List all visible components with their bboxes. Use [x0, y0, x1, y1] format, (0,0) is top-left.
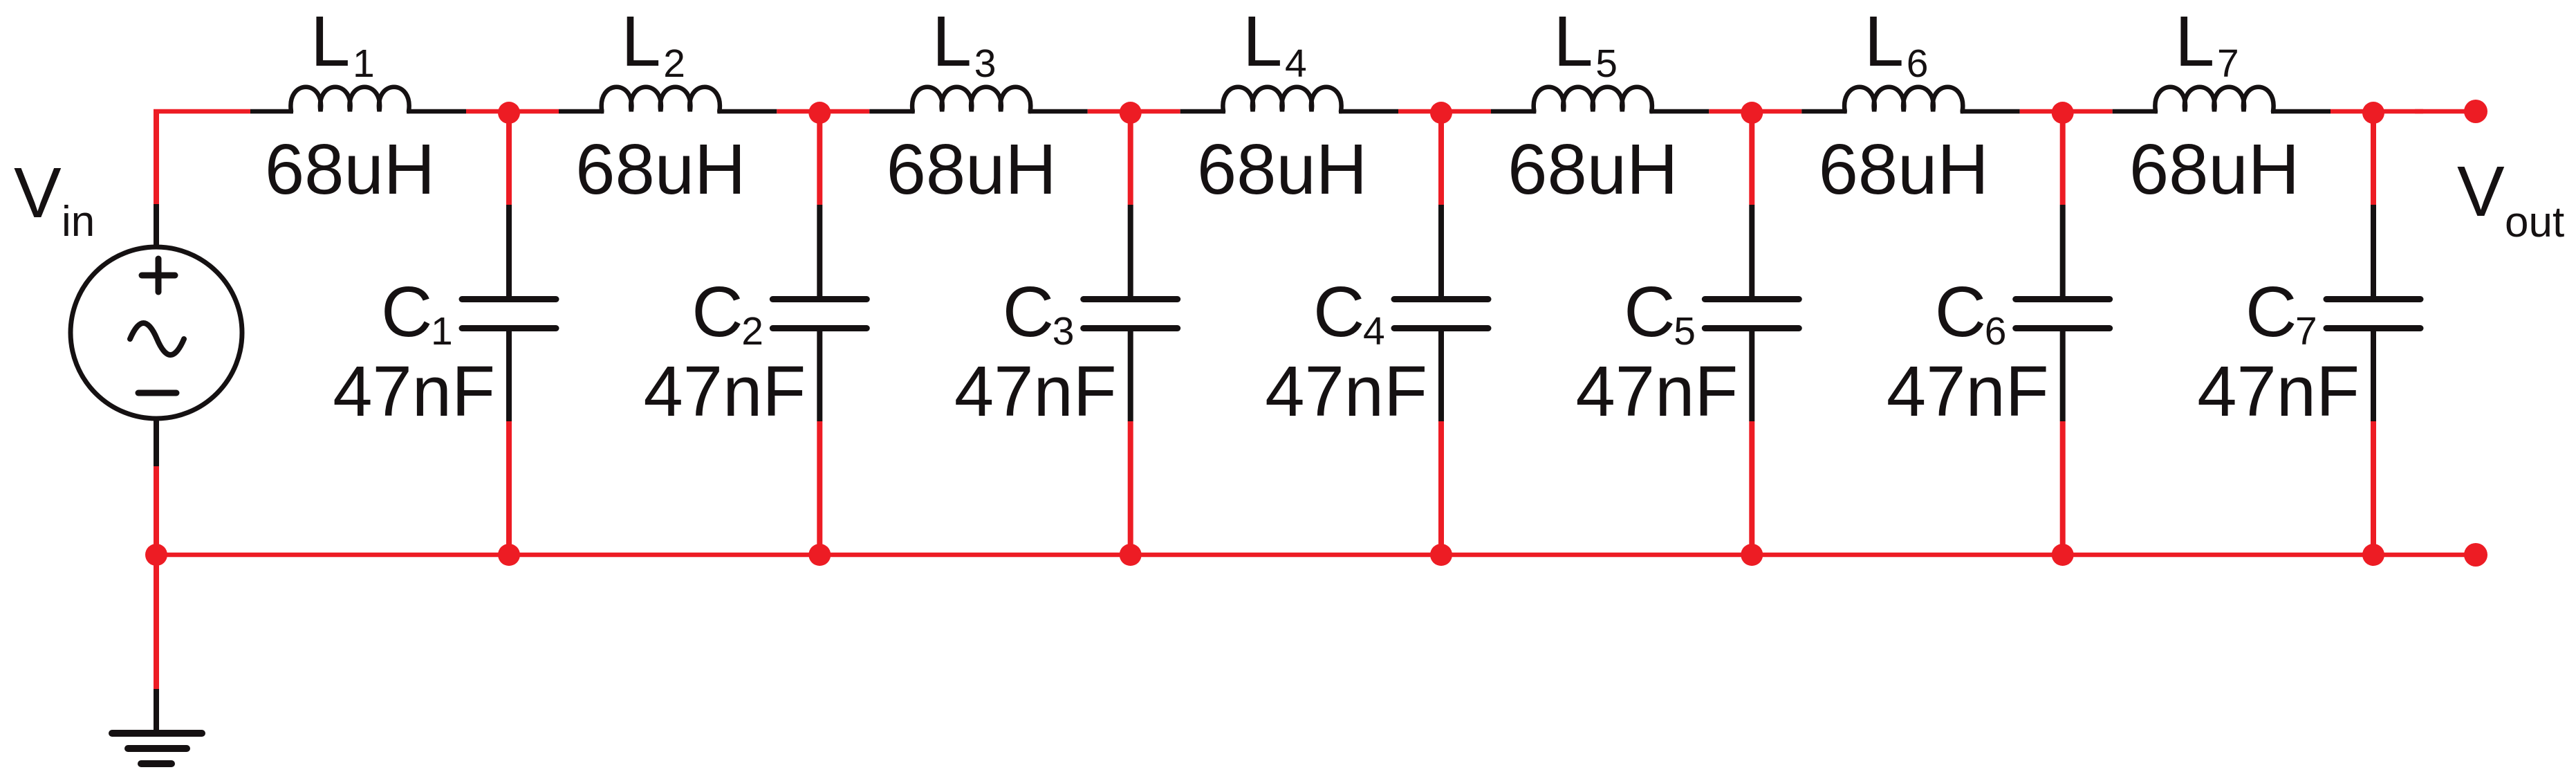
svg-text:1: 1 — [353, 42, 375, 86]
wire: red from C6 to bottom rail — [2060, 421, 2066, 555]
node 4: bottom rail junction — [1430, 544, 1452, 566]
svg-text:5: 5 — [1595, 42, 1618, 86]
wire: red from C7 to bottom rail — [2371, 421, 2376, 555]
node 2: top rail junction — [808, 102, 831, 124]
node: Vout terminal (top right) — [2464, 100, 2487, 123]
wire: black lead from C2 bottom plate — [817, 330, 822, 421]
wire: black lead to C3 top plate — [1128, 205, 1133, 297]
label L5 designator — [1553, 1, 1618, 86]
label C7 value 47nF — [2197, 351, 2360, 431]
svg-text:L: L — [932, 1, 972, 81]
label C5 designator — [1624, 272, 1696, 353]
wire: black lead to C6 top plate — [2060, 205, 2066, 297]
label L3 designator — [932, 1, 997, 86]
svg-text:47nF: 47nF — [1887, 351, 2049, 431]
voltage source V1 (Vin, AC source) — [71, 247, 242, 419]
label L7 value 68uH — [2129, 129, 2299, 209]
node 1: top rail junction — [498, 102, 520, 124]
wire: top rail red from node 7 to output terminal — [2415, 109, 2476, 114]
svg-text:47nF: 47nF — [644, 351, 806, 431]
svg-text:68uH: 68uH — [1819, 129, 1989, 209]
label C6 value 47nF — [1887, 351, 2049, 431]
svg-text:68uH: 68uH — [575, 129, 745, 209]
svg-text:L: L — [621, 1, 660, 81]
inductor L4 — [1223, 87, 1341, 111]
label L3 value 68uH — [887, 129, 1057, 209]
svg-text:68uH: 68uH — [887, 129, 1057, 209]
node 4: top rail junction — [1430, 102, 1452, 124]
label C3 designator — [1003, 272, 1075, 353]
inductor L7 — [2155, 87, 2273, 111]
svg-text:out: out — [2505, 199, 2564, 246]
label C2 designator — [692, 272, 763, 353]
node 1: bottom rail junction — [498, 544, 520, 566]
node: bottom-left junction — [145, 544, 167, 566]
wire: red from C5 to bottom rail — [1749, 421, 1754, 555]
svg-text:68uH: 68uH — [265, 129, 435, 209]
capacitor C7 — [2326, 300, 2420, 329]
svg-text:V: V — [2457, 151, 2505, 231]
wire: top rail black from node 6 to L7 — [2113, 109, 2158, 114]
label L4 designator — [1243, 1, 1307, 86]
wire: black lead to C4 top plate — [1438, 205, 1444, 297]
wire: black lead from C7 bottom plate — [2371, 330, 2376, 421]
svg-text:1: 1 — [431, 309, 453, 353]
svg-text:L: L — [1243, 1, 1282, 81]
wire: red from C1 to bottom rail — [506, 421, 512, 555]
inductor L6 — [1844, 87, 1963, 111]
wire: top rail red across node 1 — [466, 109, 559, 114]
node 7: bottom rail junction — [2362, 544, 2384, 566]
label C4 value 47nF — [1265, 351, 1427, 431]
node 5: bottom rail junction — [1741, 544, 1763, 566]
node 6: top rail junction — [2052, 102, 2074, 124]
svg-text:C: C — [692, 272, 743, 351]
wire: top rail red across node 6 — [2020, 109, 2113, 114]
inductor L5 — [1534, 87, 1652, 111]
wire: top rail black before L1 — [250, 109, 293, 114]
inductor L1 — [290, 87, 409, 111]
svg-text:68uH: 68uH — [1508, 129, 1678, 209]
wire: top rail black after L4 — [1339, 109, 1398, 114]
capacitor C4 — [1394, 300, 1488, 329]
svg-text:C: C — [1624, 272, 1675, 351]
wire: red drop from top node 3 — [1128, 111, 1133, 205]
label L1 value 68uH — [265, 129, 435, 209]
label Vin — [14, 153, 95, 246]
capacitor C1 — [462, 300, 556, 329]
wire: top rail black after L6 — [1961, 109, 2020, 114]
svg-text:4: 4 — [1363, 309, 1385, 353]
wire: red from C3 to bottom rail — [1128, 421, 1133, 555]
label C6 designator — [1935, 272, 2007, 353]
svg-text:C: C — [381, 272, 432, 351]
svg-text:7: 7 — [2295, 309, 2317, 353]
svg-text:47nF: 47nF — [333, 351, 495, 431]
svg-text:68uH: 68uH — [1197, 129, 1367, 209]
svg-text:L: L — [1864, 1, 1904, 81]
svg-text:2: 2 — [741, 309, 763, 353]
wire: black lead to C1 top plate — [506, 205, 512, 297]
svg-text:5: 5 — [1674, 309, 1696, 353]
wire: black lead from source bottom — [154, 419, 159, 466]
wire: red lead from source to bottom rail — [154, 466, 159, 555]
label L6 value 68uH — [1819, 129, 1989, 209]
svg-text:3: 3 — [974, 42, 997, 86]
wire: black lead to C2 top plate — [817, 205, 822, 297]
node 2: bottom rail junction — [808, 544, 831, 566]
node 3: top rail junction — [1120, 102, 1142, 124]
wire: top rail black after L7 — [2271, 109, 2331, 114]
inductor L3 — [912, 87, 1030, 111]
svg-text:L: L — [311, 1, 350, 81]
wire: top rail black from node 1 to L2 — [559, 109, 604, 114]
svg-text:47nF: 47nF — [954, 351, 1117, 431]
label C1 designator — [381, 272, 453, 353]
svg-text:C: C — [1003, 272, 1054, 351]
wire: top rail black from node 2 to L3 — [869, 109, 914, 114]
label C3 value 47nF — [954, 351, 1117, 431]
svg-text:C: C — [1313, 272, 1364, 351]
wire: top rail black from node 3 to L4 — [1180, 109, 1225, 114]
wire: red from bottom rail down toward ground — [154, 555, 159, 689]
svg-text:68uH: 68uH — [2129, 129, 2299, 209]
wire: black lead from C4 bottom plate — [1438, 330, 1444, 421]
label L2 value 68uH — [575, 129, 745, 209]
node 7: top rail junction — [2362, 102, 2384, 124]
svg-text:V: V — [14, 153, 62, 232]
label L4 value 68uH — [1197, 129, 1367, 209]
label L6 designator — [1864, 1, 1929, 86]
node: bottom right terminal — [2464, 543, 2487, 567]
wire: top rail black after L3 — [1028, 109, 1088, 114]
wire: black lead to C5 top plate — [1749, 205, 1754, 297]
wire: top rail black from node 5 to L6 — [1801, 109, 1846, 114]
svg-text:6: 6 — [1907, 42, 1929, 86]
label L5 value 68uH — [1508, 129, 1678, 209]
svg-text:6: 6 — [1985, 309, 2007, 353]
wire: top rail black after L2 — [717, 109, 777, 114]
svg-text:47nF: 47nF — [2197, 351, 2360, 431]
label C5 value 47nF — [1576, 351, 1739, 431]
wire: red drop from top node 1 — [506, 111, 512, 205]
wire: black lead into source top — [154, 204, 159, 247]
svg-text:4: 4 — [1285, 42, 1307, 86]
wire: red drop from top node 6 — [2060, 111, 2066, 205]
label C7 designator — [2245, 272, 2317, 353]
node 5: top rail junction — [1741, 102, 1763, 124]
wire: top rail black from node 4 to L5 — [1491, 109, 1536, 114]
wire: black lead from C5 bottom plate — [1749, 330, 1754, 421]
capacitor C2 — [772, 300, 867, 329]
label L1 designator — [311, 1, 375, 86]
wire: top rail black after L1 — [407, 109, 466, 114]
svg-text:7: 7 — [2217, 42, 2239, 86]
wire: black lead from C6 bottom plate — [2060, 330, 2066, 421]
label L7 designator — [2175, 1, 2239, 86]
svg-text:L: L — [2175, 1, 2214, 81]
svg-text:L: L — [1553, 1, 1593, 81]
capacitor C3 — [1084, 300, 1178, 329]
svg-text:C: C — [1935, 272, 1986, 351]
label L2 designator — [621, 1, 685, 86]
wire: bottom rail (ground return, red) — [156, 553, 2476, 558]
svg-text:47nF: 47nF — [1265, 351, 1427, 431]
capacitor C6 — [2016, 300, 2110, 329]
svg-text:3: 3 — [1053, 309, 1075, 353]
wire: red from C4 to bottom rail — [1438, 421, 1444, 555]
wire: black lead from C1 bottom plate — [506, 330, 512, 421]
label C2 value 47nF — [644, 351, 806, 431]
svg-text:in: in — [62, 198, 95, 246]
svg-text:C: C — [2245, 272, 2297, 351]
svg-text:2: 2 — [663, 42, 685, 86]
wire: top rail red across node 3 — [1088, 109, 1180, 114]
capacitor C5 — [1705, 300, 1799, 329]
node 6: bottom rail junction — [2052, 544, 2074, 566]
wire: black lead to C7 top plate — [2371, 205, 2376, 297]
ground — [112, 733, 202, 764]
label C1 value 47nF — [333, 351, 495, 431]
inductor L2 — [602, 87, 720, 111]
wire: top rail red across node 4 — [1398, 109, 1491, 114]
wire: red drop from top node 4 — [1438, 111, 1444, 205]
wire: red drop from top node 7 — [2371, 111, 2376, 205]
wire: black lead into ground — [154, 689, 159, 735]
wire: red from C2 to bottom rail — [817, 421, 822, 555]
label Vout — [2457, 151, 2564, 246]
label C4 designator — [1313, 272, 1385, 353]
wire: top rail black after L5 — [1649, 109, 1709, 114]
wire: Vin top corner (red, from source up and right) — [154, 109, 250, 204]
wire: top rail red across node 7 — [2331, 109, 2423, 114]
wire: top rail red across node 5 — [1709, 109, 1801, 114]
node 3: bottom rail junction — [1120, 544, 1142, 566]
wire: red drop from top node 2 — [817, 111, 822, 205]
wire: red drop from top node 5 — [1749, 111, 1754, 205]
svg-text:47nF: 47nF — [1576, 351, 1739, 431]
wire: top rail red across node 2 — [777, 109, 869, 114]
wire: black lead from C3 bottom plate — [1128, 330, 1133, 421]
